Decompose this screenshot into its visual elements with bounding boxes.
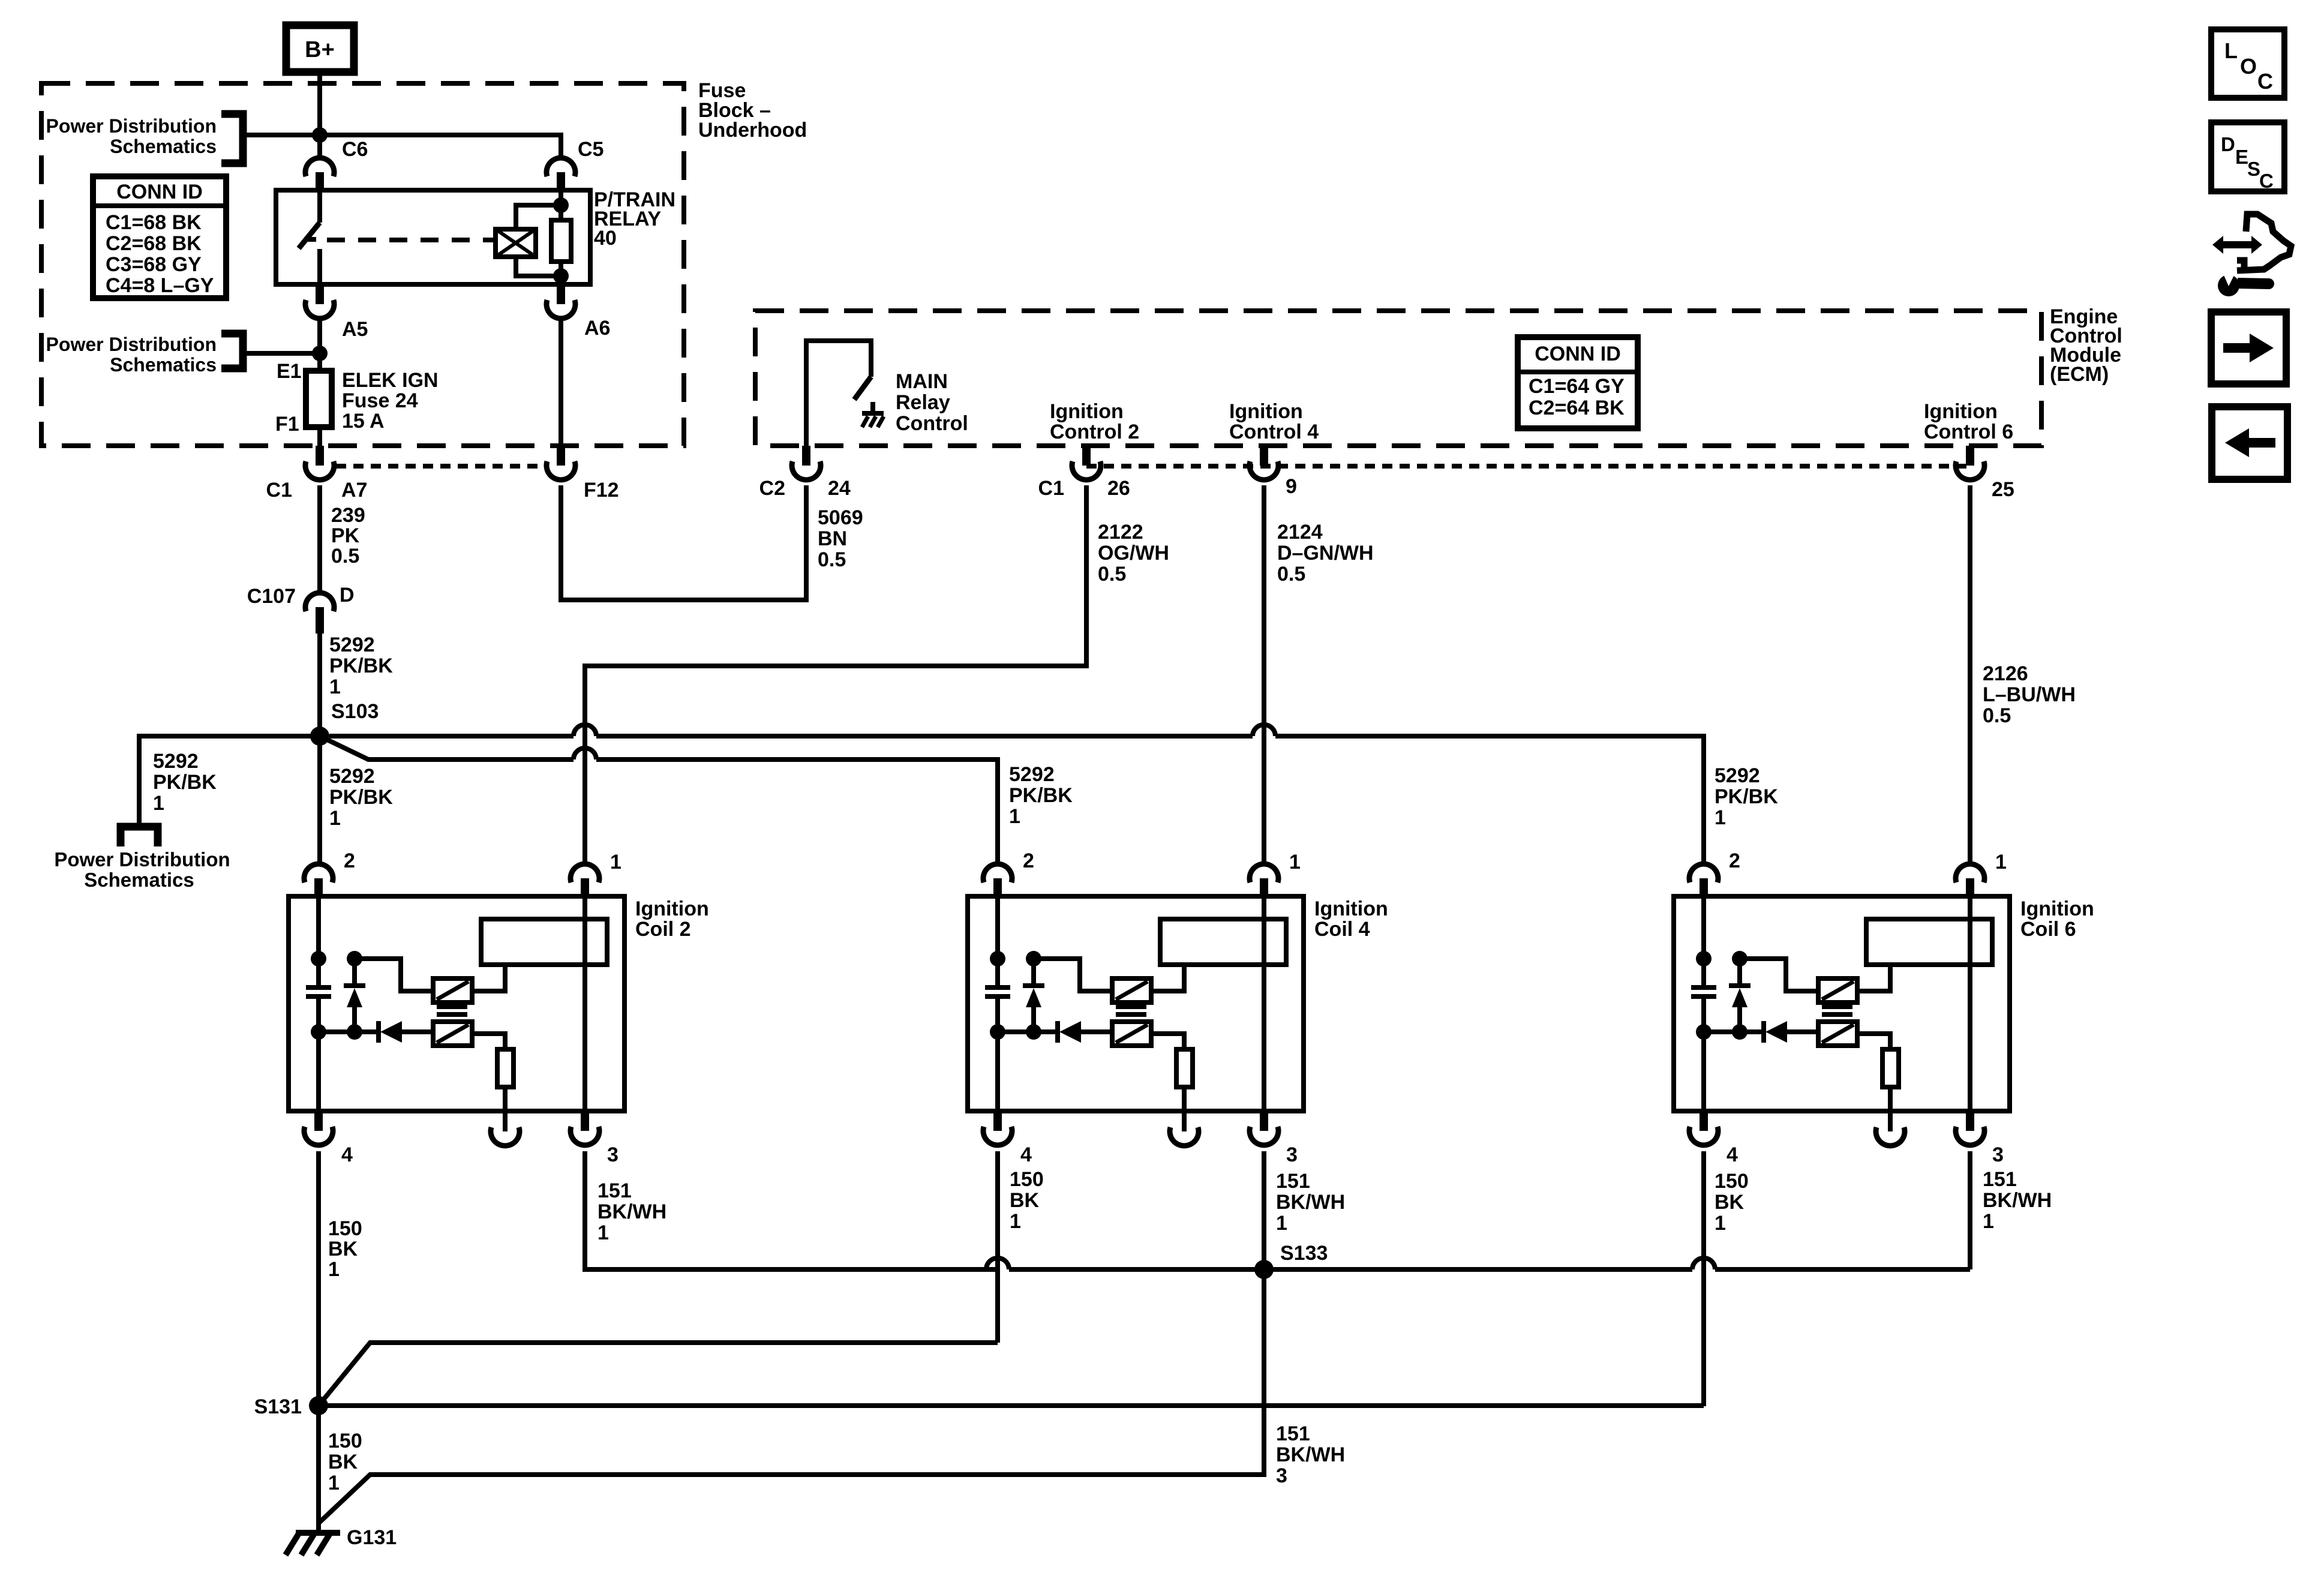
svg-text:Fuse 24: Fuse 24 — [342, 389, 418, 412]
svg-text:C2=68 BK: C2=68 BK — [106, 232, 202, 255]
coil 2 case ground pin connector — [491, 1127, 520, 1146]
svg-text:Relay: Relay — [896, 391, 950, 414]
coil 2 driver separator bars — [437, 1004, 467, 1009]
coil 6 wire driver to resistor — [1857, 1034, 1890, 1049]
junction dot at A5/E1 wire — [312, 346, 328, 361]
svg-text:PK/BK: PK/BK — [1715, 785, 1778, 808]
splice S133 — [1254, 1260, 1274, 1279]
svg-text:S131: S131 — [254, 1395, 302, 1418]
coil 4 pin 4 connector — [993, 1111, 1002, 1131]
wire S103 down to ignition coil 2 pin 2 — [317, 736, 322, 864]
coil 2 internal supply wire (pin 2 down) — [316, 896, 321, 987]
svg-text:Ignition: Ignition — [1050, 400, 1124, 423]
coil 2 capacitor — [306, 985, 331, 990]
svg-text:C2: C2 — [759, 477, 785, 500]
coil 4 zener diode — [1031, 959, 1036, 986]
ground G131 symbol — [296, 1530, 340, 1536]
svg-text:A7: A7 — [341, 479, 367, 502]
svg-text:BK: BK — [328, 1238, 358, 1260]
svg-text:239: 239 — [331, 504, 365, 527]
coil 2 secondary wire (pin 1 through winding) — [582, 896, 587, 1111]
svg-text:C: C — [2259, 170, 2274, 192]
svg-text:1: 1 — [329, 676, 341, 698]
svg-text:E1: E1 — [277, 360, 302, 383]
coil 6 resistor to case ground pin — [1888, 1087, 1893, 1111]
power symbol B+ — [286, 25, 354, 72]
relay switch fixed contact wire — [317, 190, 322, 223]
coil 6 zener diode — [1737, 959, 1742, 986]
ignition coil 4 box — [968, 896, 1304, 1111]
ECM dashed box (Engine Control Module) — [755, 311, 2041, 446]
svg-text:150: 150 — [328, 1217, 362, 1240]
coil 4 pin 3 connector — [1260, 1111, 1268, 1131]
wire B+ down to junction — [317, 72, 322, 135]
wire bracket to B+ junction and over to C5 — [243, 135, 561, 158]
svg-text:CONN ID: CONN ID — [116, 181, 203, 203]
coil 4 top row wire to driver — [1034, 959, 1112, 991]
svg-text:C2=64 BK: C2=64 BK — [1529, 397, 1625, 419]
svg-text:C: C — [2257, 69, 2273, 94]
svg-text:0.5: 0.5 — [818, 548, 846, 571]
coil 6 driver separator bars — [1822, 1004, 1852, 1009]
svg-text:4: 4 — [341, 1143, 353, 1166]
coil 6 pin 2 connector — [1689, 864, 1718, 882]
wire junction down to C6 — [317, 135, 322, 158]
coil 2 junction dots — [311, 951, 326, 966]
coil 2 wire driver to resistor — [472, 1034, 505, 1049]
relay coil K (box with X) — [496, 229, 536, 257]
ECM connector body dotted line pins 26-25 — [1086, 464, 1970, 469]
off-page bracket to Power Distribution Schematics (top) — [221, 114, 243, 163]
line A: coil 4 pin 4 return to S131 — [319, 1343, 998, 1406]
svg-text:24: 24 — [828, 477, 851, 500]
svg-text:1: 1 — [153, 792, 164, 815]
svg-text:Underhood: Underhood — [698, 119, 807, 142]
svg-text:1: 1 — [1010, 1210, 1021, 1233]
connector A6 out of relay — [557, 284, 565, 304]
coil 6 top row wire to driver — [1740, 959, 1818, 991]
junction dot relay top — [553, 197, 569, 213]
svg-text:151: 151 — [1276, 1170, 1310, 1193]
svg-text:L: L — [2224, 38, 2238, 63]
svg-text:1: 1 — [1983, 1210, 1994, 1233]
relay coil dashed actuation line — [327, 238, 496, 242]
svg-text:1: 1 — [1715, 806, 1726, 829]
coil 2 diode — [376, 1021, 381, 1043]
svg-text:C1: C1 — [1038, 477, 1064, 500]
svg-text:BN: BN — [818, 527, 847, 550]
junction dot relay bottom — [553, 268, 569, 284]
svg-text:3: 3 — [1992, 1143, 2004, 1166]
coil 6 pin 3 connector — [1966, 1111, 1974, 1131]
coil 6 pin 1 connector — [1956, 864, 1984, 882]
table CONN ID (ECM) — [1518, 337, 1638, 428]
svg-text:Ignition: Ignition — [1924, 400, 1998, 423]
svg-text:D: D — [340, 584, 355, 607]
svg-text:Control 6: Control 6 — [1924, 421, 2013, 443]
svg-text:5292: 5292 — [1009, 763, 1055, 786]
coil 2 top row wire to driver — [355, 959, 433, 991]
svg-text:2: 2 — [344, 849, 355, 872]
wire coil 4 pin 4 down to line A — [995, 1151, 1000, 1343]
svg-text:MAIN: MAIN — [896, 370, 948, 393]
coil 4 wire driver to winding — [1151, 965, 1184, 991]
svg-text:151: 151 — [1983, 1168, 2017, 1191]
wire S131 down to G131 — [316, 1406, 321, 1533]
svg-text:5292: 5292 — [153, 750, 199, 773]
svg-text:0.5: 0.5 — [1098, 563, 1126, 586]
svg-text:Ignition: Ignition — [1229, 400, 1303, 423]
svg-text:1: 1 — [328, 1472, 340, 1494]
coil 4 pin 1 connector — [1250, 864, 1278, 882]
wire pin 26 to ignition coil 2 pin 1 — [585, 485, 1086, 864]
svg-text:1: 1 — [610, 851, 621, 873]
svg-text:PK/BK: PK/BK — [153, 771, 217, 794]
coil 2 pin 1 connector — [571, 864, 599, 882]
svg-text:0.5: 0.5 — [331, 545, 359, 568]
wire pin 24 to F12 (main relay feed) — [561, 485, 806, 600]
svg-text:C107: C107 — [247, 585, 296, 608]
coil 4 capacitor — [985, 985, 1010, 990]
coil 6 internal supply wire (pin 2 down) — [1701, 896, 1706, 987]
svg-text:A5: A5 — [342, 318, 368, 341]
coil 4 wire driver to resistor — [1151, 1034, 1184, 1049]
svg-text:O: O — [2240, 54, 2257, 79]
svg-text:G131: G131 — [347, 1526, 397, 1549]
svg-text:Control 4: Control 4 — [1229, 421, 1319, 443]
coil 4 pin 2 connector — [983, 864, 1012, 882]
wire S103 left branch to off-page bracket — [139, 736, 320, 827]
svg-text:Power Distribution: Power Distribution — [46, 115, 217, 137]
icon circuit-wrench — [2212, 236, 2262, 254]
svg-text:PK: PK — [331, 524, 360, 547]
svg-text:F1: F1 — [275, 413, 299, 436]
wire coil 2 pin 4 down to S131 — [316, 1151, 321, 1406]
svg-text:2: 2 — [1729, 849, 1740, 872]
svg-text:25: 25 — [1992, 478, 2014, 501]
svg-text:Ignition: Ignition — [635, 897, 709, 920]
coil 2 driver block bottom (box with slash) — [433, 1022, 472, 1046]
relay switch lower wire — [317, 249, 322, 284]
coil 4 diode — [1055, 1021, 1060, 1043]
coil 2 pin 2 connector — [304, 864, 333, 882]
connector C5 into relay — [547, 158, 575, 176]
svg-text:L–BU/WH: L–BU/WH — [1983, 683, 2076, 706]
connector A5 out of relay — [316, 284, 324, 304]
svg-text:Power Distribution: Power Distribution — [54, 848, 230, 870]
wire S103 to ignition coil 6 pin 2 (hops over two verticals) — [329, 734, 574, 739]
svg-text:3: 3 — [1286, 1143, 1298, 1166]
icon box LOC — [2211, 29, 2284, 98]
icon box DESC — [2211, 122, 2284, 191]
svg-text:C1: C1 — [266, 479, 292, 502]
svg-text:1: 1 — [328, 1258, 340, 1281]
svg-text:CONN ID: CONN ID — [1535, 343, 1621, 365]
svg-text:3: 3 — [607, 1143, 618, 1166]
svg-text:C4=8 L–GY: C4=8 L–GY — [106, 274, 214, 297]
svg-text:26: 26 — [1107, 477, 1130, 500]
coil 2 zener diode — [352, 959, 357, 986]
svg-text:C1=64 GY: C1=64 GY — [1529, 375, 1625, 398]
svg-text:S103: S103 — [331, 700, 379, 723]
wire A6 down to F12 — [559, 319, 563, 446]
wire coil 6 pin 3 down to S133 line — [1968, 1151, 1972, 1269]
svg-text:Schematics: Schematics — [84, 869, 194, 891]
coil 4 case ground pin connector — [1170, 1127, 1199, 1146]
svg-text:E: E — [2235, 146, 2248, 168]
wire A7 down to C107 — [317, 485, 322, 593]
coil 4 junction dots — [990, 951, 1005, 966]
ECM internal MAIN relay control switch — [806, 341, 871, 446]
svg-text:BK: BK — [328, 1451, 358, 1473]
ECM pin 24 connector (C2) — [802, 446, 810, 466]
coil 2 resistor to case ground pin — [503, 1087, 508, 1111]
relay resistor — [559, 190, 563, 220]
svg-text:5292: 5292 — [329, 634, 375, 656]
coil 4 secondary wire (pin 1 through winding) — [1262, 896, 1266, 1111]
svg-text:2124: 2124 — [1277, 521, 1323, 544]
svg-text:C1=68 BK: C1=68 BK — [106, 211, 202, 234]
ECM pin 26 connector (C1) — [1082, 446, 1091, 466]
connector A7 at fuse block edge — [316, 446, 324, 466]
svg-text:Power Distribution: Power Distribution — [46, 334, 217, 355]
coil 4 internal supply wire (pin 2 down) — [995, 896, 1000, 987]
svg-text:Schematics: Schematics — [110, 136, 217, 157]
wire C107 to S103 — [317, 627, 322, 736]
svg-text:40: 40 — [594, 227, 617, 250]
svg-text:3: 3 — [1276, 1464, 1287, 1487]
svg-text:151: 151 — [1276, 1422, 1310, 1445]
connector C107 — [305, 593, 334, 611]
wire pin 25 to ignition coil 6 pin 1 — [1968, 485, 1972, 864]
svg-text:4: 4 — [1020, 1143, 1032, 1166]
connector C6 into relay — [305, 158, 334, 176]
svg-text:PK/BK: PK/BK — [329, 786, 393, 809]
svg-text:Schematics: Schematics — [110, 354, 217, 376]
coil 4 driver separator bars — [1116, 1004, 1146, 1009]
relay box P/TRAIN RELAY 40 — [276, 190, 590, 284]
svg-text:150: 150 — [328, 1430, 362, 1452]
wire S133 down and left toward G131 (151 BK/WH 3) — [319, 1269, 1264, 1523]
relay coil bottom loop wire — [516, 257, 561, 276]
coil 6 pin 4 connector — [1700, 1111, 1708, 1131]
svg-text:0.5: 0.5 — [1277, 563, 1305, 586]
svg-text:F12: F12 — [584, 479, 619, 502]
coil 6 driver block top (box with slash) — [1818, 978, 1857, 1002]
coil 2 bottom row wire with diode — [319, 1029, 377, 1034]
ECM pin 25 connector — [1966, 446, 1974, 466]
svg-text:150: 150 — [1715, 1170, 1749, 1193]
table CONN ID (fuse block) — [93, 176, 226, 298]
svg-text:1: 1 — [597, 1221, 609, 1244]
coil 6 wire driver to winding — [1857, 965, 1890, 991]
wire S103 diagonal to ignition coil 4 pin 2 (hop over one vertical) — [320, 736, 574, 760]
svg-text:1: 1 — [1276, 1212, 1287, 1235]
svg-text:C6: C6 — [342, 138, 368, 161]
ECM internal ground symbol — [870, 402, 875, 413]
fuse ELEK IGN Fuse 24 15 A — [306, 371, 332, 427]
coil 6 bottom row wire with diode — [1704, 1029, 1762, 1034]
svg-text:BK: BK — [1715, 1191, 1744, 1214]
icon box arrow right — [2211, 312, 2286, 384]
svg-text:S133: S133 — [1280, 1242, 1328, 1265]
svg-text:2126: 2126 — [1983, 662, 2028, 685]
svg-text:5069: 5069 — [818, 506, 863, 529]
svg-text:BK/WH: BK/WH — [1983, 1189, 2052, 1212]
svg-text:150: 150 — [1010, 1168, 1044, 1191]
svg-text:151: 151 — [597, 1179, 632, 1202]
wire coil 4 pin 3 down to S133 — [1262, 1151, 1266, 1269]
svg-text:BK/WH: BK/WH — [1276, 1191, 1345, 1214]
svg-text:D: D — [2221, 133, 2235, 155]
svg-text:1: 1 — [329, 807, 341, 830]
line B: coil 6 pin 4 return to S131 — [319, 1403, 1704, 1408]
coil 6 driver block bottom (box with slash) — [1818, 1022, 1857, 1046]
svg-text:5292: 5292 — [1715, 764, 1760, 787]
svg-text:PK/BK: PK/BK — [1009, 784, 1073, 807]
coil 4 bottom row wire with diode — [998, 1029, 1056, 1034]
coil 4 driver block top (box with slash) — [1112, 978, 1151, 1002]
svg-text:BK/WH: BK/WH — [1276, 1443, 1345, 1466]
svg-text:D–GN/WH: D–GN/WH — [1277, 542, 1374, 565]
svg-text:ELEK IGN: ELEK IGN — [342, 369, 439, 392]
icon box arrow left — [2212, 407, 2287, 479]
svg-text:A6: A6 — [584, 317, 610, 340]
ignition coil 6 box — [1674, 896, 2010, 1111]
wire pin 9 to ignition coil 4 pin 1 — [1262, 485, 1266, 864]
svg-text:PK/BK: PK/BK — [329, 655, 393, 677]
splice S131 — [309, 1396, 328, 1415]
connector body dotted line A7-F12 — [336, 464, 545, 469]
svg-text:Control: Control — [896, 412, 968, 435]
coil 6 junction dots — [1696, 951, 1712, 966]
svg-text:Coil 2: Coil 2 — [635, 918, 691, 941]
relay switch blade — [299, 223, 320, 248]
svg-text:1: 1 — [1995, 851, 2007, 873]
relay coil top loop wire — [516, 205, 561, 229]
coil 4 driver block bottom (box with slash) — [1112, 1022, 1151, 1046]
coil 2 wire driver to winding — [472, 965, 505, 991]
svg-text:C3=68 GY: C3=68 GY — [106, 253, 202, 276]
svg-text:B+: B+ — [305, 37, 335, 62]
svg-text:Ignition: Ignition — [2020, 897, 2094, 920]
svg-text:1: 1 — [1715, 1212, 1726, 1235]
ignition coil 2 box — [289, 896, 624, 1111]
wire coil 2 pin 3 to S133 line — [585, 1151, 998, 1269]
coil 6 diode — [1761, 1021, 1766, 1043]
coil 2 pin 4 connector — [314, 1111, 323, 1131]
svg-text:2: 2 — [1023, 849, 1034, 872]
coil 2 resistor — [497, 1049, 514, 1087]
splice S103 — [310, 727, 329, 746]
fuse block dashed box (Fuse Block - Underhood) — [41, 83, 684, 446]
svg-text:BK/WH: BK/WH — [597, 1200, 666, 1223]
coil 6 secondary wire (pin 1 through winding) — [1968, 896, 1972, 1111]
relay switch contact tick — [304, 237, 316, 242]
junction dot at B+ wire — [312, 127, 328, 143]
svg-text:Coil 4: Coil 4 — [1314, 918, 1370, 941]
svg-text:Control 2: Control 2 — [1050, 421, 1139, 443]
svg-text:9: 9 — [1286, 475, 1297, 498]
connector F12 at fuse block edge — [557, 446, 565, 466]
ECM pin 9 connector — [1260, 446, 1268, 466]
coil 4 resistor to case ground pin — [1182, 1087, 1187, 1111]
svg-text:Ignition: Ignition — [1314, 897, 1388, 920]
svg-text:OG/WH: OG/WH — [1098, 542, 1169, 565]
svg-text:C5: C5 — [578, 138, 603, 161]
coil 4 resistor — [1176, 1049, 1193, 1087]
svg-text:(ECM): (ECM) — [2050, 363, 2109, 386]
coil 2 pin 3 connector — [581, 1111, 589, 1131]
svg-text:1: 1 — [1289, 851, 1301, 873]
coil 4 primary winding box — [1160, 919, 1286, 965]
coil 2 driver block top (box with slash) — [433, 978, 472, 1002]
svg-text:2122: 2122 — [1098, 521, 1143, 544]
svg-text:Coil 6: Coil 6 — [2020, 918, 2076, 941]
coil 6 primary winding box — [1866, 919, 1992, 965]
coil 6 capacitor — [1691, 985, 1716, 990]
svg-text:0.5: 0.5 — [1983, 704, 2011, 727]
wire coil 6 pin 4 down to line B — [1701, 1151, 1706, 1406]
svg-text:15 A: 15 A — [342, 410, 385, 433]
wire F1 to fuse block edge — [317, 427, 322, 446]
wire A5 to E1 with branch to bracket — [317, 319, 322, 371]
coil 6 resistor — [1882, 1049, 1899, 1087]
svg-text:1: 1 — [1009, 805, 1020, 828]
coil 6 case ground pin connector — [1876, 1127, 1905, 1146]
svg-text:5292: 5292 — [329, 765, 375, 788]
coil 2 primary winding box — [481, 919, 607, 965]
off-page bracket to Power Distribution Schematics (bottom) — [121, 827, 158, 846]
svg-text:BK: BK — [1010, 1189, 1040, 1212]
svg-text:S: S — [2247, 158, 2260, 180]
off-page bracket to Power Distribution Schematics (mid) — [221, 334, 243, 368]
S133 ground return line (151 BK/WH) — [585, 1267, 986, 1272]
svg-text:4: 4 — [1727, 1143, 1738, 1166]
